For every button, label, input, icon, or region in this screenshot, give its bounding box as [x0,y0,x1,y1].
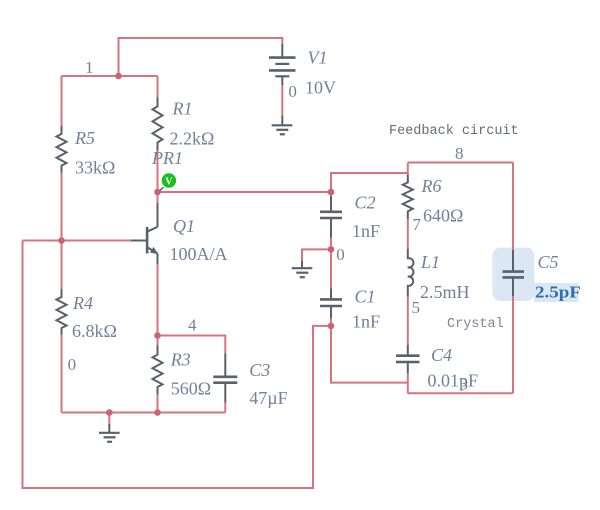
svg-text:8: 8 [455,144,464,163]
svg-text:Q1: Q1 [173,216,195,236]
wire box right edge below C5 [512,296,514,393]
svg-text:6.8kΩ: 6.8kΩ [72,321,117,341]
wire R1 bottom to probe node [157,151,159,203]
svg-text:R4: R4 [72,293,93,313]
wire node 0 to mid ground [302,249,331,261]
battery V1 [269,44,336,98]
wire top rail from node 1 to V1 [119,38,283,76]
capacitor C4 [396,345,478,391]
svg-text:2.5mH: 2.5mH [420,282,470,302]
wire node 1 rail [62,75,158,77]
svg-text:V: V [165,177,173,188]
svg-text:560Ω: 560Ω [171,379,211,399]
svg-text:0: 0 [288,82,297,101]
wire R4 bottom to ground rail [61,335,63,413]
transistor Q1 [131,203,228,264]
svg-text:2.2kΩ: 2.2kΩ [170,129,215,149]
wire V1 bottom to ground [281,85,283,115]
junction dot node 0 [328,246,335,253]
svg-text:1nF: 1nF [352,312,380,332]
ground under V1 [272,116,293,135]
wire bottom ground rail [62,412,226,414]
svg-text:R1: R1 [172,99,193,119]
ground mid (node 0) [292,261,313,277]
wire R3 bottom [157,395,159,413]
capacitor C2 [320,193,380,242]
wire C2 bottom to node 0 [330,238,332,250]
svg-text:640Ω: 640Ω [423,206,463,226]
resistor R6 [403,175,464,226]
junction dot base node [58,237,65,244]
svg-text:L1: L1 [420,252,440,272]
svg-text:4: 4 [188,316,197,335]
ground bottom rail [99,424,120,442]
wire box left edge below C4 [407,373,409,393]
wire R5 top [61,76,63,126]
svg-text:C2: C2 [355,193,376,213]
svg-text:C3: C3 [249,360,270,380]
svg-text:1: 1 [85,58,94,77]
svg-text:C1: C1 [355,287,376,307]
wire C2 top and to box [331,173,408,196]
resistor R3 [153,345,212,398]
wire C1 node down to box bottom [331,326,408,383]
wire node 4 rail to C3 [158,336,226,354]
svg-text:PR1: PR1 [151,148,183,168]
wire box top edge [408,162,513,164]
svg-text:R5: R5 [74,128,95,148]
svg-text:47µF: 47µF [249,388,287,408]
svg-text:3: 3 [460,375,469,394]
wire emitter down to node 4 [157,264,159,345]
svg-text:5: 5 [412,298,421,317]
svg-text:10V: 10V [305,78,336,98]
wire node 0 to C1 [330,249,332,288]
wire feedback loop left/bottom/right [23,241,332,489]
svg-text:2.5pF: 2.5pF [535,283,581,302]
resistor R4 [57,289,117,341]
inductor L1 [408,249,470,302]
highlight box around C5 [492,248,534,301]
svg-text:0: 0 [336,245,345,264]
svg-text:R3: R3 [170,350,191,370]
svg-text:33kΩ: 33kΩ [75,158,115,178]
junction dot ground rail [106,409,113,416]
probe PR1 [151,148,183,192]
junction dot R3 bottom [154,409,161,416]
capacitor C1 [320,287,380,332]
wire R1 top [157,76,159,97]
wire ground stem bottom [108,413,110,425]
wire base to left [23,240,132,242]
wire C3 bottom [224,403,226,413]
svg-text:C5: C5 [538,252,559,272]
svg-text:R6: R6 [421,176,442,196]
junction dot collector rail right [328,189,335,196]
wire box left edge R6-L1 [407,219,409,249]
wire C1 bottom [330,318,332,326]
svg-text:7: 7 [413,215,422,234]
wire collector rail to C2 [158,191,332,193]
capacitor C5 [503,250,582,302]
resistor R5 [57,126,116,178]
svg-text:0: 0 [68,355,77,374]
wire R5 bottom to base node [61,173,63,289]
svg-text:100A/A: 100A/A [170,244,228,264]
resistor R1 [153,97,215,150]
svg-text:0.01pF: 0.01pF [428,371,479,391]
svg-text:V1: V1 [308,48,328,68]
highlight behind 2.5pF value [534,283,579,302]
junction dot node 4 [154,332,161,339]
junction dot probe node [154,189,161,196]
wire box right edge above C5 [512,163,514,251]
wire box left edge L1-C4 [407,297,409,346]
svg-text:1nF: 1nF [352,221,380,241]
svg-text:Feedback circuit: Feedback circuit [389,124,519,139]
capacitor C3 [213,353,287,408]
svg-text:Crystal: Crystal [447,317,504,332]
wire box bottom edge [408,392,513,394]
node 1 junction dot [115,73,122,80]
svg-text:C4: C4 [431,345,452,365]
wire box left edge segment 1 [407,163,409,175]
junction dot below C1 [328,323,335,330]
